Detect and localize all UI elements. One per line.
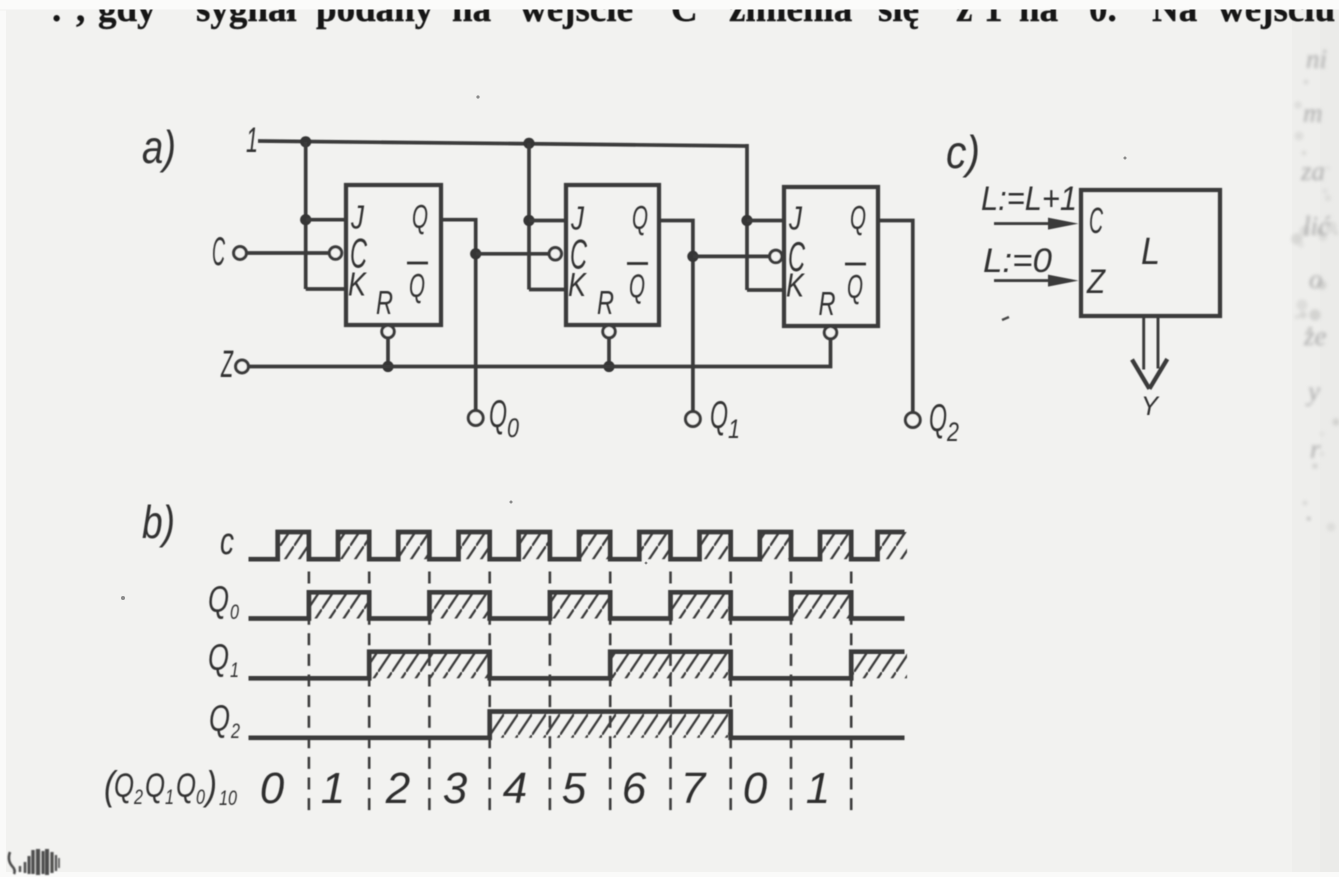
junction on rail at FF2 branch	[523, 138, 534, 149]
wire: U1 Q to U2 clock	[476, 252, 549, 256]
junction on rail at FF1 branch	[300, 136, 311, 147]
svg-text:.: .	[1306, 496, 1313, 526]
wire: top rail from 1	[258, 141, 747, 146]
Q0 waveform	[249, 592, 905, 618]
svg-text:1: 1	[321, 764, 345, 813]
svg-text:R: R	[597, 284, 614, 321]
wire: U1 R stem	[386, 338, 390, 367]
row label (Q2Q1Q0)10	[104, 764, 237, 810]
svg-text:lić: lić	[1303, 211, 1331, 241]
svg-text:Z: Z	[220, 344, 233, 386]
svg-text:za: za	[1300, 156, 1325, 186]
svg-text:0: 0	[743, 764, 768, 813]
counter block L	[1081, 190, 1220, 316]
svg-text:0: 0	[507, 413, 519, 443]
svg-text:c: c	[220, 521, 234, 563]
svg-text:K: K	[786, 267, 806, 304]
svg-text:że: że	[1303, 321, 1327, 351]
svg-text:Q: Q	[847, 268, 863, 305]
U3 reset bubble	[824, 326, 836, 338]
inverting clock bubble U3	[770, 250, 782, 262]
svg-text:a): a)	[142, 121, 176, 173]
output terminal Q1	[686, 412, 701, 427]
white scan margins	[0, 0, 1339, 10]
svg-text:Q: Q	[409, 267, 425, 304]
junction R1 on Z rail	[382, 361, 393, 372]
svg-text:Q: Q	[114, 767, 134, 805]
junction at FF1 J	[300, 214, 311, 225]
svg-text:6: 6	[622, 764, 647, 813]
junction at U3 J	[741, 215, 752, 226]
svg-text:R: R	[819, 285, 836, 322]
svg-text:0: 0	[230, 601, 239, 624]
bottom-left ink smudge	[9, 849, 59, 875]
svg-text:0: 0	[260, 764, 285, 813]
svg-text:K: K	[568, 266, 588, 303]
timing grid dashed lines	[308, 572, 311, 813]
wire: to U3 K	[747, 288, 784, 292]
junction Q0 branch	[470, 248, 481, 259]
svg-text:Q: Q	[412, 198, 428, 235]
inverting clock bubble U1	[329, 247, 341, 259]
svg-text:K: K	[348, 266, 368, 303]
svg-text:L:=L+1: L:=L+1	[981, 180, 1077, 218]
wire: to FF1 K	[306, 287, 346, 291]
wire: C input to FF1 clock	[247, 251, 329, 255]
U2 branch vertical	[527, 143, 531, 290]
paper specks	[121, 95, 1127, 600]
wire: U1 Q out	[441, 220, 476, 412]
svg-text:L: L	[1141, 231, 1160, 273]
svg-text:Q: Q	[176, 767, 196, 805]
wire: to FF1 J	[306, 218, 346, 222]
svg-text:7: 7	[681, 764, 707, 813]
wire: U2 Q to U3 clock	[693, 255, 770, 259]
svg-text:0: 0	[196, 786, 205, 809]
output terminal Q0	[468, 411, 483, 426]
svg-text:m: m	[1303, 98, 1323, 128]
wire: to U2 K	[529, 288, 566, 292]
svg-text:Q: Q	[850, 199, 866, 236]
flip-flop U1 box	[346, 185, 441, 325]
svg-text:Q: Q	[710, 394, 728, 437]
svg-text:b): b)	[142, 496, 175, 548]
svg-text:10: 10	[219, 787, 237, 810]
svg-text:L:=0: L:=0	[983, 242, 1052, 280]
flip-flop U3 box	[784, 187, 878, 326]
svg-text:Q: Q	[632, 199, 648, 236]
svg-text:y: y	[1305, 376, 1320, 406]
svg-text:Z: Z	[1086, 263, 1106, 301]
svg-text:5: 5	[562, 764, 587, 813]
svg-text:1: 1	[728, 414, 740, 444]
right edge scan grain	[1291, 80, 1339, 532]
svg-text:Q: Q	[209, 698, 230, 739]
svg-text:C: C	[212, 230, 225, 274]
wire: FF1 J/K branch vertical	[304, 142, 308, 289]
svg-text:Q: Q	[145, 767, 165, 805]
svg-text:2: 2	[385, 764, 410, 813]
U2 reset bubble	[603, 325, 615, 337]
inverting clock bubble U2	[549, 248, 561, 260]
svg-text:1: 1	[806, 764, 830, 813]
right edge scan shading	[1292, 0, 1339, 877]
svg-text:o: o	[1309, 264, 1323, 294]
Q1 waveform	[249, 652, 905, 679]
svg-text:1: 1	[230, 659, 239, 682]
wire: U2 Q out	[659, 221, 693, 413]
svg-text:1: 1	[246, 121, 258, 160]
svg-text:3: 3	[443, 764, 468, 813]
svg-text:R: R	[376, 284, 393, 321]
Q1 hatching	[369, 652, 490, 679]
wire: Z reset rail	[248, 340, 830, 367]
svg-text:4: 4	[503, 764, 527, 813]
svg-text:Y: Y	[1141, 391, 1160, 421]
wire: U3 Q out	[878, 221, 913, 414]
U3 branch vertical	[745, 144, 749, 290]
svg-text:2: 2	[133, 786, 143, 809]
stray tick mark	[1002, 317, 1009, 320]
svg-text:J: J	[788, 200, 802, 237]
junction Q1 branch	[687, 251, 698, 262]
right edge ghost print-through	[1300, 44, 1331, 526]
flip-flop U2 box	[566, 185, 659, 325]
wire: to U2 J	[529, 219, 566, 223]
svg-text:Q: Q	[629, 268, 645, 305]
Q2 waveform	[249, 712, 905, 738]
svg-text:Q: Q	[489, 393, 507, 436]
U1 reset bubble	[382, 325, 394, 337]
arrow into C of L	[994, 222, 1060, 225]
svg-text:Q: Q	[208, 637, 229, 678]
wire: U2 R stem	[607, 338, 611, 367]
svg-text:2: 2	[946, 417, 959, 447]
svg-text:r: r	[1310, 434, 1321, 464]
svg-text:C: C	[1089, 200, 1104, 241]
svg-text:ni: ni	[1306, 44, 1327, 74]
output terminal Q2	[905, 413, 920, 428]
svg-text:Q: Q	[208, 579, 229, 620]
svg-text:c): c)	[946, 126, 980, 178]
wire: to U3 J	[747, 219, 784, 223]
arrow into Z of L	[994, 279, 1060, 282]
bus arrow to Y	[1142, 317, 1145, 370]
junction R2 on Z rail	[603, 361, 614, 372]
svg-text:Q: Q	[929, 397, 947, 440]
svg-text:2: 2	[230, 720, 240, 743]
clock C hatching	[278, 532, 309, 559]
Q0 hatching	[309, 592, 369, 618]
clock C waveform	[249, 532, 905, 559]
junction at U2 J	[523, 215, 534, 226]
svg-text:1: 1	[165, 786, 174, 809]
Q2 hatching	[490, 712, 731, 738]
top cropped serif text line	[52, 0, 1335, 30]
